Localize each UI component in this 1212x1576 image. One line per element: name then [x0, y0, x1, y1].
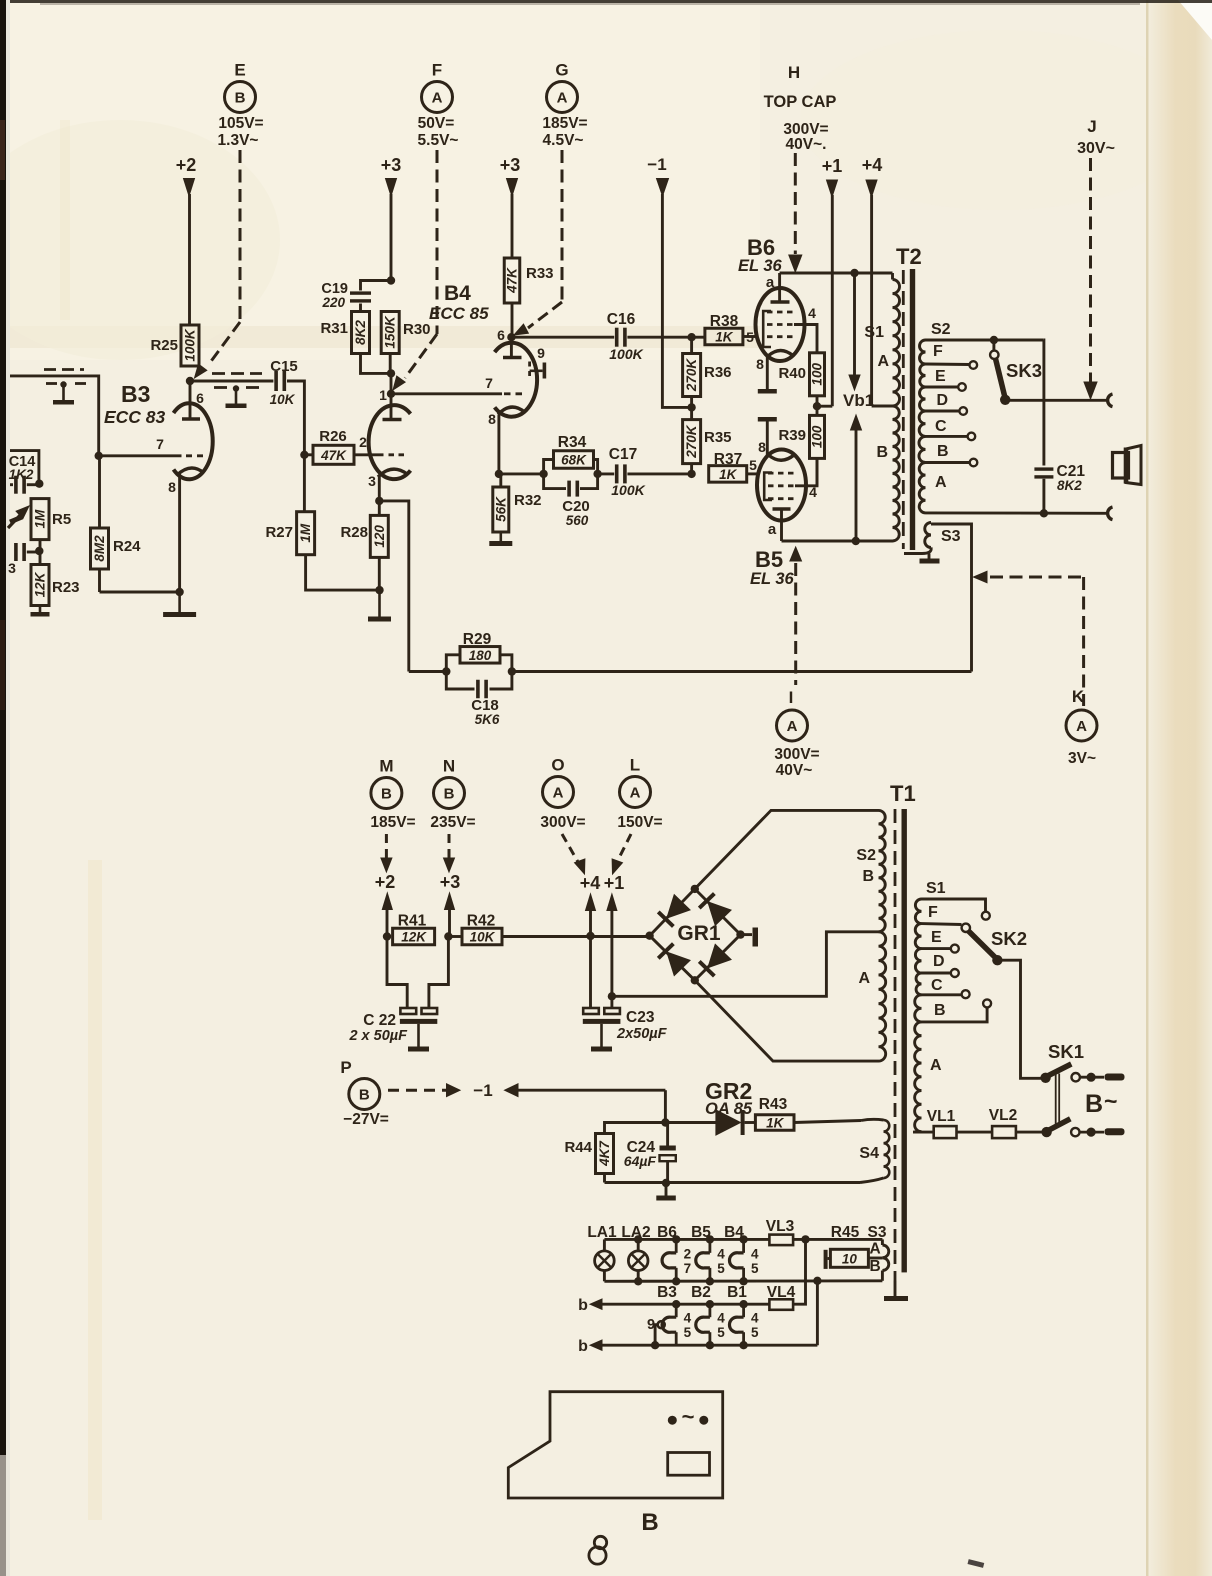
SK3 wire down from top tap: [1042, 340, 1045, 466]
svg-text:5: 5: [717, 1325, 725, 1340]
resistor R23 12K: [31, 565, 49, 606]
svg-text:47K: 47K: [320, 448, 347, 463]
svg-text:R42: R42: [467, 913, 495, 930]
svg-text:100K: 100K: [611, 482, 645, 498]
ground below R28: [378, 590, 381, 616]
svg-text:VL3: VL3: [766, 1218, 795, 1235]
terminal I (A) 300V: [790, 547, 802, 561]
svg-text:40V~.: 40V~.: [786, 136, 827, 153]
svg-text:8M2: 8M2: [92, 535, 107, 562]
bottom-right scan speck: [968, 1559, 985, 1568]
svg-text:C23: C23: [626, 1009, 655, 1026]
psu bus wire: [383, 932, 391, 940]
top-right corner cut: [1178, 0, 1212, 40]
B6 screen lead pin 4: [794, 325, 817, 353]
svg-text:S3: S3: [941, 528, 961, 545]
S2 tap E: [926, 386, 959, 389]
heater top bus wire: [604, 1238, 769, 1241]
svg-text:10: 10: [842, 1252, 858, 1267]
S1 tap F/E to SK2 pivot: [922, 922, 962, 926]
C23 wiring: [608, 992, 616, 1000]
svg-text:5.5V~: 5.5V~: [418, 132, 459, 149]
capacitor C22 2x50uF: [400, 1008, 416, 1014]
node R26 tap: [300, 451, 308, 459]
B4b cathode: [498, 407, 525, 414]
T2 core dashed line: [902, 270, 905, 549]
T2 core bar: [910, 269, 915, 550]
GR1 right output bar: [736, 930, 744, 938]
GR1 to T1 wiring polygon: [695, 810, 879, 889]
wire C16 to R38 node: [627, 336, 691, 339]
terminal K (A) 3V: [974, 571, 988, 583]
input wire 2 to C14 node: [10, 451, 39, 484]
fuse VL3: [769, 1235, 793, 1246]
svg-text:GR1: GR1: [677, 922, 721, 945]
resistor R40 100: [810, 353, 825, 396]
wire C15 to corner down: [287, 381, 304, 512]
node R40/R39: [816, 396, 819, 416]
speaker terminal hook bottom: [1108, 507, 1113, 520]
node R5/C13: [35, 547, 43, 555]
svg-text:4: 4: [717, 1246, 725, 1261]
svg-text:b: b: [578, 1297, 588, 1314]
svg-text:F: F: [928, 904, 938, 921]
resistor R39 100: [810, 415, 825, 458]
wire node to +1 line: [817, 405, 832, 408]
svg-text:A: A: [553, 785, 564, 802]
dashed arrow O to +4: [562, 834, 578, 862]
dashed measure line F to B4 pin1: [436, 150, 439, 334]
svg-text:300V=: 300V=: [774, 746, 819, 763]
svg-text:H: H: [788, 63, 800, 82]
T1 S2 tap wire to +1: [612, 932, 879, 997]
svg-text:B3: B3: [121, 381, 150, 407]
svg-text:56K: 56K: [493, 496, 508, 522]
speaker terminal hook top: [1108, 394, 1113, 407]
node B4 pin 1: [387, 390, 395, 398]
svg-text:R36: R36: [704, 364, 732, 381]
C23 ground: [600, 1024, 603, 1047]
svg-text:7: 7: [684, 1261, 692, 1276]
B6 cathode ground: [766, 356, 769, 389]
svg-text:+3: +3: [440, 872, 461, 892]
svg-text:4: 4: [808, 305, 816, 321]
triode B3 envelope: [174, 403, 213, 479]
svg-text:F: F: [933, 343, 943, 360]
svg-text:8: 8: [168, 479, 176, 495]
svg-text:40V~: 40V~: [776, 762, 813, 779]
svg-text:S4: S4: [859, 1145, 879, 1162]
resistor R29 180: [460, 647, 500, 664]
S3 bottom to ground: [922, 548, 931, 554]
svg-text:+1: +1: [822, 156, 843, 176]
dashed measure line E to R25 node: [239, 150, 242, 322]
T1 primary S2 section B: [879, 810, 886, 931]
svg-text:B5: B5: [755, 547, 783, 572]
svg-text:R39: R39: [778, 427, 806, 444]
svg-text:D: D: [933, 953, 945, 970]
svg-text:A: A: [870, 1241, 881, 1258]
heater B5 pins 4/5: [709, 1239, 712, 1252]
svg-text:R23: R23: [52, 579, 80, 596]
resistor R37 1K: [709, 466, 747, 483]
svg-text:A: A: [877, 353, 889, 370]
svg-text:C 22: C 22: [363, 1012, 396, 1029]
capacitor C13 (edge cut): [14, 543, 18, 561]
svg-text:64µF: 64µF: [624, 1153, 657, 1169]
svg-text:8: 8: [488, 411, 496, 427]
svg-text:4: 4: [809, 484, 817, 500]
svg-text:8K2: 8K2: [353, 320, 368, 345]
svg-text:C: C: [935, 418, 947, 435]
svg-text:O: O: [551, 756, 564, 775]
resistor R30 150K: [381, 312, 399, 354]
svg-text:220: 220: [321, 295, 345, 310]
wire C17 to node: [598, 472, 615, 475]
svg-text:A: A: [557, 90, 568, 107]
resistor R33 47K: [504, 258, 520, 303]
dashed line H down to anode wire: [794, 153, 797, 254]
wire R43 to S4: [794, 1121, 861, 1123]
B6 cathode: [768, 351, 794, 357]
ground below R32: [499, 532, 502, 541]
R45 left bar: [824, 1250, 828, 1269]
svg-text:3: 3: [8, 560, 16, 576]
ground R23: [39, 605, 42, 613]
S1 tap B/A: [922, 1008, 988, 1022]
GR1 diode bottom-left: [667, 952, 690, 975]
dashed arrow P to -1: [388, 1089, 448, 1092]
svg-text:VL1: VL1: [927, 1108, 956, 1125]
S1 tap C/B: [922, 993, 962, 996]
B6 anode bar: [771, 300, 790, 304]
svg-text:M: M: [379, 757, 393, 776]
R44 wiring: [605, 1123, 666, 1134]
svg-text:100K: 100K: [183, 328, 198, 362]
svg-text:S2: S2: [856, 847, 876, 864]
svg-text:30V~: 30V~: [1077, 140, 1115, 157]
svg-text:270K: 270K: [684, 424, 699, 459]
S1 tap D/C: [922, 972, 951, 975]
wires R31/R30 bottoms: [361, 354, 392, 374]
SK1 mechanical link: [1055, 1074, 1057, 1126]
svg-text:1M: 1M: [298, 523, 313, 543]
svg-text:EL 36: EL 36: [738, 257, 783, 275]
svg-text:A: A: [787, 718, 798, 735]
svg-text:235V=: 235V=: [430, 814, 475, 831]
svg-text:8K2: 8K2: [1057, 478, 1082, 493]
svg-text:E: E: [234, 61, 245, 80]
lamp LA1: [603, 1239, 606, 1251]
B3 grid wire pin 7: [99, 454, 182, 457]
S3 center tap to R45: [869, 1257, 883, 1260]
resistor R36 270K: [687, 333, 695, 341]
dashed measure line G to B4 pin6: [561, 150, 564, 302]
T1 core dashed line: [894, 809, 897, 1281]
svg-text:105V=: 105V=: [218, 115, 263, 132]
triode B4a envelope: [369, 405, 411, 479]
B4b pin 9 shield: [528, 362, 531, 380]
arrow -1 from GR2 node: [505, 1084, 519, 1097]
svg-text:R43: R43: [759, 1096, 788, 1113]
svg-text:1M: 1M: [33, 509, 48, 529]
node R36/R35: [687, 403, 695, 411]
svg-text:5: 5: [684, 1325, 692, 1340]
T1 core ground: [894, 1281, 897, 1297]
capacitor C19 220: [361, 281, 392, 291]
B5 bottom cap lead: [780, 509, 783, 541]
svg-text:10K: 10K: [470, 930, 496, 945]
S3 bottom to row wire: [881, 1271, 884, 1281]
capacitor C18 5K6: [446, 672, 474, 690]
svg-text:100: 100: [810, 425, 825, 448]
svg-text:12K: 12K: [33, 571, 48, 597]
R5 wiper arrow: [8, 511, 24, 528]
B5 cathode ground bar (above): [766, 422, 769, 456]
top scanner edge line: [10, 0, 1212, 3]
svg-text:T2: T2: [896, 244, 922, 269]
T2 primary winding S1 section A: [893, 280, 900, 407]
wire to T1 S3 top: [881, 1239, 884, 1245]
svg-text:B2: B2: [691, 1284, 711, 1301]
B3 cathode lead down: [178, 474, 181, 592]
svg-text:J: J: [1087, 117, 1096, 136]
R29 parallel wiring: [442, 667, 450, 675]
heater B3 pins 4/5/9: [675, 1304, 678, 1317]
svg-text:T1: T1: [890, 781, 916, 806]
GR1 diode top-left: [667, 895, 690, 918]
svg-text:4: 4: [751, 1246, 759, 1261]
unit B mains symbol dots: [668, 1416, 677, 1425]
svg-text:68K: 68K: [561, 453, 587, 468]
svg-text:S1: S1: [864, 324, 884, 341]
svg-text:C17: C17: [609, 446, 637, 463]
resistor R26 47K: [313, 445, 354, 464]
resistor R43 1K: [755, 1115, 794, 1131]
C22 ground: [417, 1024, 420, 1047]
switch SK2 arm: [969, 931, 997, 958]
shield ground at C15: [233, 385, 239, 391]
svg-text:I: I: [789, 688, 794, 707]
B4b cathode lead: [497, 415, 500, 475]
T1 winding S3 (heater): [882, 1245, 888, 1271]
bottom wire of GR2 cell: [605, 1181, 861, 1184]
Vb1 measurement arrows: [853, 273, 856, 376]
shield ground symbol: [60, 381, 66, 387]
svg-text:a: a: [766, 274, 775, 291]
svg-text:R29: R29: [463, 631, 492, 648]
resistor R28 120: [370, 515, 388, 557]
S2 bottom wire to speaker: [926, 511, 1107, 514]
capacitor C21 8K2: [1034, 467, 1053, 470]
svg-text:C: C: [931, 977, 943, 994]
paper streak: [88, 860, 102, 1520]
svg-text:B1: B1: [727, 1284, 747, 1301]
svg-text:9: 9: [537, 345, 545, 361]
svg-text:4: 4: [717, 1311, 725, 1326]
svg-text:47K: 47K: [505, 267, 520, 294]
svg-text:+2: +2: [176, 155, 197, 175]
svg-text:7: 7: [485, 375, 493, 391]
node pin3: [375, 497, 383, 505]
svg-text:B: B: [444, 786, 455, 803]
svg-text:~: ~: [1104, 1088, 1117, 1114]
svg-text:R25: R25: [150, 337, 178, 354]
svg-text:B: B: [641, 1509, 658, 1536]
svg-text:−1: −1: [473, 1081, 492, 1100]
svg-text:2 x 50µF: 2 x 50µF: [348, 1028, 408, 1044]
svg-text:R30: R30: [403, 321, 431, 338]
svg-text:~: ~: [682, 1404, 695, 1429]
heater B2 pins 4/5: [709, 1304, 712, 1317]
svg-text:8: 8: [756, 356, 764, 372]
svg-text:1K2: 1K2: [9, 467, 34, 482]
svg-text:1K: 1K: [715, 330, 734, 345]
B4b grid pin 7 wire from pin1: [391, 392, 502, 395]
svg-text:5: 5: [749, 457, 757, 473]
svg-text:S2: S2: [931, 321, 951, 338]
svg-text:1K: 1K: [766, 1116, 785, 1131]
node B4 pin 6: [507, 333, 515, 341]
node Vb1 top: [850, 269, 858, 277]
svg-text:SK3: SK3: [1006, 360, 1042, 381]
svg-text:EL 36: EL 36: [750, 570, 795, 588]
B6 top cap lead: [778, 273, 781, 302]
svg-text:E: E: [931, 929, 942, 946]
svg-text:R44: R44: [564, 1139, 592, 1156]
heater bottom wire row1: [604, 1279, 882, 1282]
svg-text:R34: R34: [558, 434, 587, 451]
pentode B5 envelope: [757, 450, 806, 521]
heater row2 dots: [672, 1300, 680, 1308]
svg-text:7: 7: [156, 436, 164, 452]
GR1 diode top-right: [708, 902, 731, 925]
svg-text:6: 6: [497, 327, 505, 343]
left scanner edge strip: [0, 0, 6, 1455]
S2 top tap wire to SK3: [926, 339, 1044, 342]
svg-text:D: D: [937, 392, 949, 409]
wire R27 bottom: [306, 555, 380, 590]
node R35/C17/R37: [687, 470, 695, 478]
wire +3 down to node: [390, 194, 393, 281]
svg-text:Vb1: Vb1: [843, 391, 874, 410]
B4a cathode: [378, 469, 407, 477]
resistor R41 12K: [393, 928, 435, 945]
svg-text:B: B: [1085, 1090, 1103, 1118]
resistor R24 8M2: [91, 528, 109, 569]
B5 anode bar: [773, 507, 791, 511]
svg-text:TOP CAP: TOP CAP: [764, 93, 837, 111]
shield dashes over input wire: [44, 368, 84, 371]
svg-text:F: F: [432, 61, 442, 80]
triode B4b envelope: [495, 343, 537, 417]
B6 grid rows: [767, 311, 794, 314]
node R27/R28 bottom: [375, 586, 383, 594]
wire pin3 to feedback corner: [379, 501, 409, 672]
wire down to b-row: [816, 1281, 819, 1345]
svg-text:+4: +4: [580, 873, 601, 893]
svg-text:OA 85: OA 85: [705, 1100, 753, 1118]
svg-text:1.3V~: 1.3V~: [218, 132, 259, 149]
svg-text:+2: +2: [375, 872, 396, 892]
svg-text:ECC 83: ECC 83: [104, 407, 166, 427]
B4a cathode lead: [378, 476, 381, 501]
S3 top wire to feedback: [931, 524, 972, 672]
wire -1 down to R35/R36 node: [662, 194, 691, 407]
svg-text:B: B: [870, 1258, 881, 1275]
wire node to B3 anode: [189, 381, 192, 419]
pentode B6 envelope: [756, 288, 805, 361]
potentiometer R5 1M: [31, 499, 49, 540]
svg-text:1: 1: [379, 387, 387, 403]
svg-text:B: B: [862, 868, 874, 885]
capacitor C20 560: [567, 481, 571, 497]
rectifier bridge GR1: [650, 889, 741, 980]
svg-text:L: L: [630, 756, 640, 775]
svg-text:VL2: VL2: [989, 1107, 1017, 1124]
resistor R42 10K: [462, 928, 502, 945]
node C14/R5: [35, 480, 43, 488]
svg-text:5: 5: [717, 1261, 725, 1276]
B4a anode bar and lead: [390, 394, 393, 420]
svg-text:180: 180: [469, 648, 492, 663]
S2 tap B: [926, 461, 970, 464]
svg-text:+3: +3: [500, 155, 521, 175]
svg-text:270K: 270K: [684, 358, 699, 393]
svg-text:R35: R35: [704, 429, 732, 446]
svg-text:4: 4: [751, 1311, 759, 1326]
resistor R34 68K: [554, 451, 594, 469]
resistor R45 10: [830, 1249, 868, 1267]
svg-text:10K: 10K: [270, 392, 296, 407]
B3 anode bar: [182, 417, 200, 421]
wire node to C15: [190, 380, 273, 383]
svg-text:B: B: [937, 443, 949, 460]
svg-text:N: N: [443, 757, 455, 776]
resistor R44 4K7: [596, 1134, 614, 1174]
svg-text:B: B: [934, 1002, 946, 1019]
B5 anode wire to T2: [782, 540, 893, 543]
svg-text:A: A: [935, 474, 947, 491]
svg-text:−1: −1: [647, 155, 666, 174]
T2 tertiary S3: [925, 523, 931, 548]
svg-text:A: A: [930, 1057, 942, 1074]
svg-text:B3: B3: [657, 1284, 677, 1301]
B5 grid rows: [768, 472, 795, 475]
speaker icon: [1113, 453, 1129, 479]
svg-text:S1: S1: [926, 880, 946, 897]
svg-text:R26: R26: [319, 428, 347, 445]
unit B inner rectangle: [668, 1453, 710, 1476]
T1 primary S2 section A: [879, 932, 886, 1061]
svg-text:5: 5: [751, 1261, 759, 1276]
svg-text:B: B: [876, 444, 888, 461]
dashed arrow L to +1: [617, 834, 631, 862]
svg-text:8: 8: [758, 439, 766, 455]
heater B1 pins 4/5: [742, 1304, 745, 1317]
wire SK3 arm to speaker terminal: [1005, 399, 1106, 402]
svg-text:2: 2: [684, 1246, 692, 1261]
svg-text:5: 5: [751, 1325, 759, 1340]
svg-text:a: a: [768, 521, 777, 538]
C22 wiring: [387, 937, 407, 1009]
resistor R35 270K: [683, 420, 701, 464]
svg-text:R33: R33: [526, 265, 554, 282]
node cathode/R24 junction: [175, 588, 183, 596]
S2 tap C: [926, 435, 968, 438]
node below R30: [387, 369, 395, 377]
svg-text:3: 3: [368, 473, 376, 489]
